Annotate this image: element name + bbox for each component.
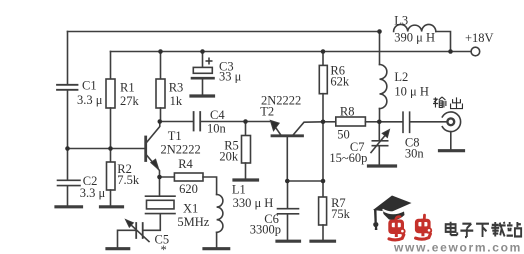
svg-text:33 μ: 33 μ [219, 70, 242, 84]
svg-text:10n: 10n [207, 121, 227, 135]
node T1 emitter/R4/X1 junction [157, 175, 162, 180]
svg-text:2N2222: 2N2222 [161, 142, 201, 156]
plus sign C3 [206, 58, 213, 65]
node T2 base/C6 junction [285, 179, 290, 184]
svg-text:30n: 30n [405, 146, 425, 160]
inductor L1 [217, 195, 223, 233]
svg-text:T1: T1 [168, 129, 182, 143]
watermark bug char 1 [388, 217, 405, 240]
capacitor C7 variable [372, 122, 387, 165]
glyph xia [476, 224, 489, 237]
node C1/C2/base wire junction [65, 146, 70, 151]
wire C4 to T2 emitter [200, 121, 269, 123]
svg-text:1k: 1k [170, 94, 183, 108]
ground C3 [191, 94, 214, 97]
watermark text dianzi xiazai zhan [446, 222, 521, 237]
node T1 collector/R3/C4 junction [158, 119, 163, 124]
node R3/+18V rail junction [158, 49, 163, 54]
svg-text:10 μ H: 10 μ H [394, 85, 428, 99]
output connector [447, 118, 454, 125]
svg-text:7.5k: 7.5k [117, 173, 140, 187]
node R7 top junction [321, 179, 326, 184]
ground C5 [107, 247, 129, 250]
svg-text:3.3 μ: 3.3 μ [77, 93, 103, 107]
svg-text:620: 620 [179, 182, 198, 196]
node R6/+18V rail junction [321, 49, 326, 54]
inductor L3 [394, 24, 436, 31]
ground R2 [101, 205, 123, 208]
node T2 collector/R6/R8 junction [321, 120, 326, 125]
wire base T2 down [286, 137, 288, 181]
svg-text:L3: L3 [394, 14, 408, 28]
capacitor C3 [202, 52, 204, 68]
node R8/L2/C7/C8 junction [377, 120, 382, 125]
capacitor C1 [57, 85, 78, 90]
svg-text:75k: 75k [331, 207, 351, 221]
svg-text:L2: L2 [394, 70, 408, 84]
capacitor C8 [379, 112, 447, 132]
label shuchu (output) [433, 97, 462, 109]
svg-text:R3: R3 [169, 81, 184, 95]
capacitor C2 [58, 149, 81, 206]
wire left column (C1 branch) [67, 32, 69, 85]
resistor R5 [245, 122, 247, 136]
inductor L2 [379, 32, 381, 65]
node C4/R5/T2 emitter junction [243, 119, 248, 124]
watermark bug char 2 [415, 215, 432, 239]
watermark white cap stripe [383, 209, 406, 213]
node R1/R2/base wire junction [108, 146, 113, 151]
terminal +18V [471, 47, 480, 56]
svg-text:390 μ H: 390 μ H [394, 31, 435, 45]
svg-text:*: * [161, 243, 167, 254]
svg-text:C4: C4 [210, 108, 225, 122]
resistor R3 [160, 52, 162, 80]
resistor R2 [110, 149, 112, 163]
svg-text:5MHz: 5MHz [177, 215, 209, 229]
wire base line T1 [68, 148, 145, 150]
wire bias row [287, 180, 323, 182]
svg-text:R8: R8 [340, 104, 355, 118]
resistor R4 [160, 176, 175, 178]
ground R7 [311, 240, 335, 243]
svg-text:X1: X1 [183, 202, 198, 216]
glyph zi [460, 224, 473, 237]
svg-text:R4: R4 [178, 157, 193, 171]
svg-text:C1: C1 [82, 79, 97, 93]
svg-text:3.3 μ: 3.3 μ [80, 186, 106, 200]
svg-text:15~60p: 15~60p [329, 151, 367, 165]
ground output [440, 149, 464, 152]
resistor R8 [323, 121, 336, 123]
glyph dian [446, 222, 458, 235]
resistor R1 [110, 52, 112, 80]
svg-text:+18V: +18V [465, 31, 494, 45]
resistor R6 [322, 52, 324, 66]
crystal X1 [146, 177, 176, 214]
resistor R7 [319, 197, 327, 225]
glyph zhan [507, 222, 522, 237]
ground C7 [369, 164, 396, 167]
svg-text:62k: 62k [330, 75, 350, 89]
svg-text:www.eeworm.com: www.eeworm.com [393, 241, 522, 254]
svg-text:3300p: 3300p [250, 223, 281, 237]
svg-text:L1: L1 [232, 183, 246, 197]
capacitor C6 [278, 181, 299, 240]
ground C2 [56, 205, 82, 208]
capacitor C4 [194, 112, 201, 131]
wire top rail [68, 31, 380, 33]
svg-text:50: 50 [337, 128, 350, 142]
ground C6 [277, 240, 300, 243]
transistor T1 [144, 137, 147, 161]
svg-text:20k: 20k [219, 150, 239, 164]
node L3/+18V terminal junction [448, 49, 453, 54]
node C3/+18V rail junction [200, 49, 205, 54]
capacitor C5 variable [136, 223, 143, 238]
watermark graduation cap [373, 196, 412, 231]
svg-text:T2: T2 [260, 105, 274, 119]
svg-text:R1: R1 [120, 81, 135, 95]
ground L1 [204, 247, 229, 250]
glyph zai [491, 222, 505, 237]
svg-text:27k: 27k [120, 94, 140, 108]
wire +18V rail [111, 51, 471, 53]
wire collector T1 to C4 [160, 121, 194, 123]
transistor T2 [272, 134, 303, 137]
svg-text:330 μ H: 330 μ H [233, 196, 274, 210]
ground R5 [234, 178, 258, 181]
node L2/top rail junction [377, 29, 382, 34]
